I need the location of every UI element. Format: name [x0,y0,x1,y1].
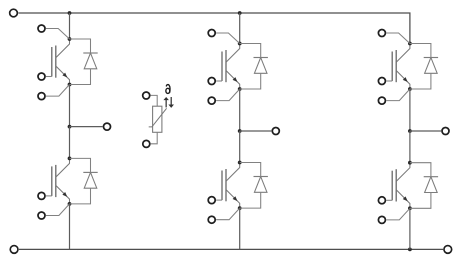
terminal: Q6 gate [378,197,385,204]
symbol: temperature up arrow [163,97,169,107]
transistor Q6 (IGBT, leg 3 low-side) [392,163,410,209]
wire: Q3 gate lead [216,80,222,82]
node: Q4 collector junction [238,161,242,165]
diode D6 (anti-parallel, leg 3 low-side) [424,177,438,193]
diode D2 (anti-parallel, leg 1 low-side) [83,172,97,188]
node: DC+ bus / leg 1 junction [68,11,72,15]
node: Q3 collector junction [238,42,242,46]
node: Q1 collector junction [68,37,72,41]
terminal: Q3 auxiliary collector [208,30,215,37]
wire: thermistor bottom lead [151,132,158,144]
terminal: Q1 gate [38,73,45,80]
wire: leg 2 rail, phase node to Q4 collector [239,131,241,163]
terminal: Q5 auxiliary collector [378,30,385,37]
wire: Q3 collector to D3 cathode [240,44,261,58]
wire: leg 3 rail, Q6 emitter to DC- bus [409,208,411,249]
symbol: temperature down arrow [168,97,174,108]
wire: Q4 aux emitter lead [216,208,240,220]
terminal: Q3 auxiliary emitter [208,97,215,104]
terminal: phase V output [272,128,279,135]
node: DC- bus / leg 3 junction [408,248,412,252]
wire: Q2 collector to D2 cathode [70,158,91,172]
wire: Q1 collector to D1 cathode [70,39,91,53]
diode D4 (anti-parallel, leg 2 low-side) [254,177,268,193]
thermistor R1 (NTC) body [149,106,167,132]
node: Q5 collector junction [408,42,412,46]
terminal: Q1 auxiliary collector [38,25,45,32]
wire: leg 3 rail, phase node to Q6 collector [409,131,411,163]
wire: Q2 aux emitter lead [46,204,70,216]
wire: Q1 gate lead [46,76,52,78]
terminal: Q4 gate [208,197,215,204]
transistor Q3 (IGBT, leg 2 high-side) [222,44,240,90]
terminal: Q6 auxiliary emitter [378,216,385,223]
node: phase W midpoint [408,129,412,133]
node: Q6 collector junction [408,161,412,165]
wire: leg 1 rail, Q1 emitter to phase node [69,85,71,127]
terminal: DC- (bottom right) [444,246,452,254]
node: Q5 emitter junction [408,87,412,91]
wire: leg 2 rail, Q3 emitter to phase node [239,89,241,131]
wire: leg 1 rail, phase node to Q2 collector [69,127,71,159]
wire: phase U output lead [70,126,103,128]
transistor Q2 (IGBT, leg 1 low-side) [52,158,70,204]
wire: D5 anode to Q5 emitter [410,73,431,89]
wire: leg 1 rail, Q2 emitter to DC- bus [69,204,71,250]
wire: D1 anode to Q1 emitter [70,69,91,85]
wire: Q4 gate lead [216,199,222,201]
terminal: Q2 auxiliary emitter [38,212,45,219]
transistor Q4 (IGBT, leg 2 low-side) [222,163,240,209]
terminal: thermistor bottom [143,140,150,147]
node: Q4 emitter junction [238,206,242,210]
wire: leg 2 rail, DC+ bus to Q3 collector [239,13,241,44]
diode D1 (anti-parallel, leg 1 high-side) [83,53,97,69]
wire: phase W output lead [410,130,441,132]
wire: Q6 aux emitter lead [386,208,410,220]
terminal: Q2 gate [38,192,45,199]
wire: DC- bottom bus [19,248,443,250]
wire: Q3 aux collector lead [216,33,240,44]
wire: leg 2 rail, Q4 emitter to DC- bus [239,208,241,249]
terminal: Q5 auxiliary emitter [378,97,385,104]
wire: D2 anode to Q2 emitter [70,188,91,204]
diode D3 (anti-parallel, leg 2 high-side) [254,58,268,74]
wire: D3 anode to Q3 emitter [240,73,261,89]
wire: D4 anode to Q4 emitter [240,192,261,208]
node: Q3 emitter junction [238,87,242,91]
terminal: Q4 auxiliary emitter [208,216,215,223]
wire: Q5 aux collector lead [386,33,410,44]
terminal: phase U output [104,123,111,130]
node: Q2 emitter junction [68,202,72,206]
diode D5 (anti-parallel, leg 3 high-side) [424,58,438,74]
wire: Q6 gate lead [386,199,392,201]
label: temperature symbol (theta) [166,85,170,94]
wire: Q1 aux collector lead [46,29,70,40]
terminal: Q1 auxiliary emitter [38,93,45,100]
terminal: DC- (bottom left) [10,246,18,254]
transistor Q1 (IGBT, leg 1 high-side) [52,39,70,85]
wire: Q6 collector to D6 cathode [410,163,431,177]
wire: DC+ top bus [18,13,410,44]
terminal: thermistor top [143,92,150,99]
wire: D6 anode to Q6 emitter [410,193,431,209]
node: phase U midpoint [68,125,72,129]
terminal: DC+ (top left) [10,9,18,17]
terminal: Q3 gate [208,78,215,85]
wire: leg 1 rail, DC+ bus to Q1 collector [69,13,71,39]
terminal: phase W output [442,128,449,135]
node: phase V midpoint [238,129,242,133]
wire: Q5 aux emitter lead [386,89,410,101]
node: Q1 emitter junction [68,83,72,87]
node: Q6 emitter junction [408,206,412,210]
wire: thermistor top lead [151,95,158,106]
node: Q2 collector junction [68,157,72,161]
wire: Q5 collector to D5 cathode [410,44,431,58]
wire: Q2 gate lead [46,195,52,197]
wire: phase V output lead [240,130,272,132]
terminal: Q5 gate [378,78,385,85]
wire: Q5 gate lead [386,80,392,82]
wire: Q1 aux emitter lead [46,85,70,97]
wire: Q4 collector to D4 cathode [240,163,261,177]
transistor Q5 (IGBT, leg 3 high-side) [392,44,410,90]
wire: leg 3 rail, Q5 emitter to phase node [409,89,411,131]
wire: Q3 aux emitter lead [216,89,240,101]
node: DC+ bus / leg 2 junction [238,11,242,15]
